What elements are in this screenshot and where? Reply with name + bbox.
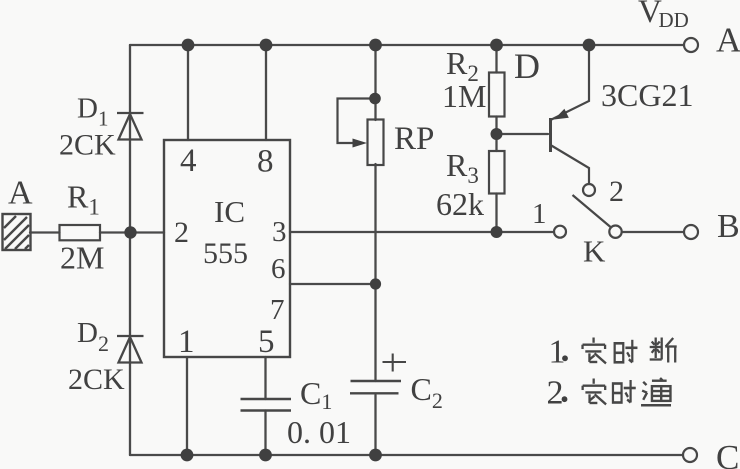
wire base of transistor: [497, 133, 549, 135]
node dot pin1 rail: [181, 449, 194, 462]
svg-text:C1: C1: [300, 375, 332, 414]
terminal A: [684, 38, 698, 52]
svg-text:8: 8: [257, 144, 274, 180]
svg-text:IC: IC: [214, 194, 245, 229]
svg-text:555: 555: [203, 237, 248, 270]
wire pin4 to rail: [187, 45, 189, 140]
svg-text:2CK: 2CK: [59, 129, 116, 162]
svg-text:2M: 2M: [60, 240, 104, 276]
wire C1 to bottom rail: [264, 411, 266, 456]
polarity plus of C2: [383, 354, 407, 372]
svg-text:K: K: [583, 234, 606, 269]
wire node to pin2: [130, 231, 164, 233]
switch K pivot: [609, 226, 621, 238]
note line 1: 1. ding shi duan: [549, 334, 677, 371]
wire RP column lower to C2: [374, 164, 376, 381]
hanzi tong (line2): [641, 378, 671, 405]
svg-text:7: 7: [270, 294, 285, 326]
capacitor C1: [241, 399, 292, 411]
wire switch to terminal B: [622, 231, 684, 233]
svg-text:B: B: [717, 208, 740, 245]
svg-text:2: 2: [609, 175, 624, 208]
wire C2 to bottom rail: [374, 395, 376, 455]
switch K contact 1: [554, 226, 566, 238]
resistor R3: [489, 151, 505, 194]
resistor R2: [489, 73, 505, 117]
resistor R1: [60, 225, 101, 240]
note line 2: 2. ding shi tong: [547, 375, 672, 412]
terminal B: [684, 225, 698, 239]
node dot R2 rail: [490, 39, 503, 52]
wire bottom rail: [130, 454, 683, 456]
svg-text:2: 2: [174, 216, 189, 249]
hanzi duan (line1): [650, 338, 677, 363]
svg-text:4: 4: [180, 143, 197, 179]
node dot pin6 junction: [370, 278, 381, 289]
node dot pin4 rail: [182, 39, 195, 52]
potentiometer RP: [368, 120, 384, 166]
svg-text:6: 6: [271, 253, 286, 285]
terminal C: [683, 448, 697, 462]
wire left column: [129, 45, 131, 455]
svg-text:RP: RP: [394, 121, 434, 157]
emitter arrow of Q1: [554, 109, 569, 120]
svg-text:A: A: [8, 175, 33, 212]
op-amp/timer IC U1 555 box: [164, 140, 290, 357]
wire R3 to pin3 line: [495, 194, 497, 233]
wiper of RP: [338, 99, 376, 144]
node dot RP rail: [369, 39, 382, 52]
svg-text:C2: C2: [411, 371, 443, 413]
node dot emitter rail: [583, 39, 596, 52]
diode D1: [117, 113, 144, 140]
svg-text:DD: DD: [659, 8, 689, 32]
node dot pin8 rail: [260, 39, 273, 52]
node dot C2 rail: [369, 449, 382, 462]
wire plate to R1: [30, 231, 60, 233]
wire pin6 to RP column: [290, 283, 376, 285]
svg-text:C: C: [716, 438, 739, 469]
svg-text:62k: 62k: [436, 186, 484, 222]
diode D2: [117, 336, 144, 363]
switch K blade: [573, 195, 611, 227]
hanzi ding (line2): [583, 379, 606, 405]
svg-text:2: 2: [547, 375, 564, 412]
wire R2 column top: [495, 45, 497, 73]
svg-text:1: 1: [178, 324, 195, 360]
svg-text:5: 5: [258, 324, 275, 360]
wire pin1 to bottom rail: [186, 357, 188, 455]
capacitor C2 (electrolytic): [350, 381, 401, 393]
svg-text:1: 1: [549, 334, 566, 371]
node dot base junction: [491, 128, 503, 140]
svg-text:1M: 1M: [442, 78, 486, 114]
node dot R3 bottom: [491, 226, 503, 238]
wire pin5 to C1: [264, 357, 266, 399]
wire R1 to node: [100, 231, 130, 233]
transistor Q1 3CG21: [551, 45, 590, 184]
node junction R1/pin2: [124, 226, 136, 238]
wire VDD top rail: [130, 44, 684, 46]
svg-text:R1: R1: [67, 179, 100, 220]
svg-text:0. 01: 0. 01: [287, 414, 351, 450]
svg-text:A: A: [716, 21, 740, 60]
hanzi shi (line1): [615, 340, 638, 363]
svg-text:D1: D1: [77, 93, 108, 131]
node dot RP wiper top: [369, 93, 381, 105]
svg-text:3CG21: 3CG21: [601, 77, 693, 113]
hanzi ding (line1): [583, 338, 606, 364]
svg-text:2CK: 2CK: [68, 363, 125, 396]
hanzi shi (line2): [613, 380, 636, 403]
svg-text:3: 3: [272, 216, 287, 248]
wire RP column upper: [374, 45, 376, 120]
svg-text:D: D: [514, 46, 540, 86]
touch plate A: [3, 214, 31, 250]
svg-text:R3: R3: [446, 147, 479, 188]
wire R2 to R3: [495, 117, 497, 152]
svg-text:D2: D2: [77, 317, 109, 356]
wire pin8 to rail: [265, 45, 267, 140]
switch K contact 2: [583, 184, 595, 196]
node dot C1 rail: [259, 449, 272, 462]
svg-text:1: 1: [532, 198, 547, 230]
wire pin3 output: [290, 231, 554, 233]
